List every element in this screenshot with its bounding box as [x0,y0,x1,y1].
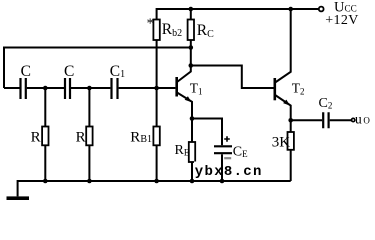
svg-text:ybx8.cn: ybx8.cn [195,164,263,180]
svg-text:R: R [76,130,86,146]
svg-text:+12V: +12V [325,13,359,28]
svg-text:3K: 3K [272,134,291,150]
svg-text:*: * [147,17,154,32]
svg-text:u: u [355,111,362,126]
svg-text:O: O [363,115,370,125]
svg-text:R: R [31,130,41,146]
svg-text:C: C [21,63,31,80]
svg-text:C: C [64,63,74,80]
